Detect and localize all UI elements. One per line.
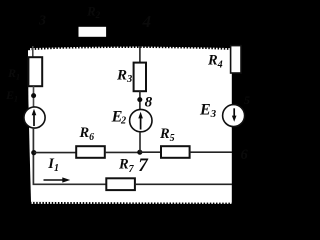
resistor R7 [106, 178, 135, 190]
resistor R2 (box in black band) [79, 27, 107, 37]
source E3 (circle with down arrow, over black) [223, 105, 245, 127]
node 7 junction dot [137, 150, 142, 155]
wire: node 7 to R5 [140, 151, 162, 153]
node A junction dot (33.5,152.5) [31, 150, 36, 155]
resistor R3 [134, 63, 146, 92]
current arrow I1 [44, 179, 64, 181]
wire: E2 down to node 7 [139, 132, 141, 152]
resistor R6 [76, 146, 105, 158]
svg-text:3: 3 [38, 14, 46, 29]
node junction dot (left, y=95.5) [31, 93, 36, 98]
wire: R3 to node 8 [139, 91, 141, 110]
svg-text:6: 6 [241, 147, 249, 163]
wire: R5 to right edge [190, 151, 233, 153]
scan page (white area) [28, 48, 232, 203]
source E2 (circle with up arrow) [130, 109, 152, 131]
resistor R5 [161, 146, 190, 158]
wire: node A to R6 [34, 152, 77, 154]
resistor R4 (right rail, over black) [231, 46, 241, 73]
svg-text:8: 8 [145, 94, 153, 111]
wire: R1 to E1 source [33, 86, 35, 107]
node 8 junction dot [137, 97, 142, 102]
scan background [0, 0, 260, 210]
source E1 (circle with up arrow) [24, 107, 45, 128]
wire: R7 to right edge (bottom rail) [135, 183, 232, 185]
wire: top rail stub to R3 [139, 46, 141, 63]
wire: R6 to node 7 [105, 151, 140, 153]
svg-text:5: 5 [244, 93, 250, 107]
wire: left rail stub above R1 [32, 46, 34, 58]
svg-text:7: 7 [138, 155, 149, 176]
svg-text:4: 4 [142, 12, 152, 31]
resistor R1 [28, 57, 42, 86]
wire: E1 down to bottom-left corner and node A [33, 128, 106, 184]
